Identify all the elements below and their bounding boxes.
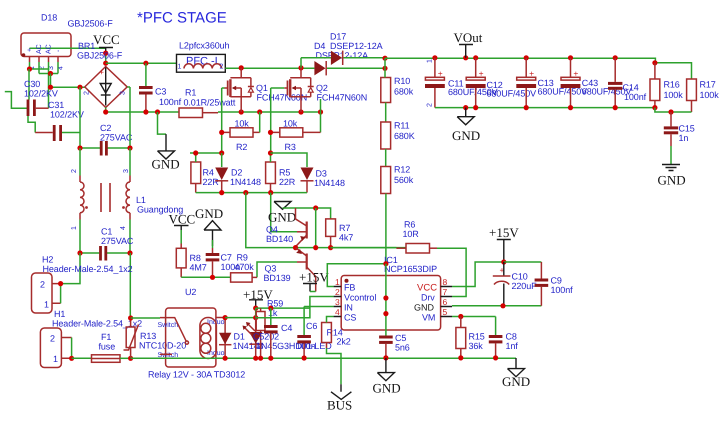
svg-text:100nf: 100nf [159, 97, 182, 107]
svg-text:2: 2 [335, 287, 340, 297]
svg-text:1n: 1n [679, 133, 689, 143]
wire R16/R17 bottom [655, 108, 692, 112]
svg-text:R2: R2 [236, 142, 247, 152]
bridge rectifier BR1 [85, 67, 127, 108]
ground GND (earth, C15) [662, 165, 680, 171]
svg-text:5n6: 5n6 [395, 343, 410, 353]
svg-text:2: 2 [40, 280, 45, 290]
svg-text:2: 2 [71, 169, 78, 173]
svg-text:100k: 100k [664, 90, 684, 100]
svg-text:2: 2 [427, 103, 434, 107]
svg-text:D3: D3 [316, 169, 327, 179]
svg-text:3: 3 [335, 297, 340, 307]
wire pin1 down [29, 62, 31, 69]
svg-text:AC: AC [46, 44, 53, 54]
svg-text:R59: R59 [267, 299, 283, 309]
svg-text:7: 7 [443, 287, 448, 297]
wire through IC to C5 [385, 264, 387, 336]
svg-text:D2: D2 [231, 168, 242, 178]
svg-text:1N45G3HD01-LED: 1N45G3HD01-LED [256, 341, 332, 351]
svg-text:GND: GND [658, 173, 686, 188]
svg-text:1k: 1k [268, 308, 278, 318]
wire FB pin1 [327, 264, 386, 287]
svg-text:1N4148: 1N4148 [314, 178, 345, 188]
svg-text:D1: D1 [234, 332, 245, 342]
svg-text:220uF: 220uF [512, 281, 538, 291]
svg-text:8: 8 [443, 277, 448, 287]
sense wire y=112 [106, 111, 179, 113]
svg-text:R13: R13 [140, 331, 156, 341]
wire R8/C7 bottom [181, 276, 230, 278]
wire +15V node to C9 [504, 261, 542, 263]
ground GND (under caps) [457, 108, 474, 125]
ground GND (C5) [377, 358, 394, 381]
svg-text:GND: GND [502, 374, 530, 389]
wire L1 to C1 [80, 220, 130, 254]
output top rail [385, 58, 655, 63]
wire GND to R7 top [283, 208, 331, 219]
bridge top wire to L2 [106, 62, 177, 64]
gate drive rail y=192.6 [196, 192, 307, 194]
svg-text:BR1: BR1 [78, 41, 95, 51]
svg-text:C8: C8 [506, 332, 517, 342]
svg-text:Q4: Q4 [266, 224, 278, 234]
svg-text:275VAC: 275VAC [101, 236, 134, 246]
svg-text:Relay 12V - 30A TD3012: Relay 12V - 30A TD3012 [148, 370, 245, 380]
svg-text:2: 2 [50, 334, 55, 344]
svg-text:1nf: 1nf [506, 341, 519, 351]
svg-text:L1: L1 [136, 195, 146, 205]
svg-text:22R: 22R [203, 177, 220, 187]
svg-text:Q1: Q1 [256, 83, 268, 93]
svg-text:C9: C9 [551, 276, 562, 286]
node dot [48, 85, 53, 90]
svg-text:1: 1 [53, 354, 58, 364]
svg-text:C6: C6 [306, 321, 317, 331]
D18 pin 1 [29, 56, 31, 62]
svg-text:GND: GND [195, 206, 223, 221]
svg-text:R17: R17 [700, 80, 716, 90]
svg-text:Drv: Drv [421, 293, 435, 303]
svg-text:D17: D17 [330, 31, 346, 41]
svg-text:GND: GND [373, 381, 401, 396]
svg-text:Q2: Q2 [316, 83, 328, 93]
svg-text:102/2KV: 102/2KV [50, 110, 84, 120]
wire through D18 to VCC [30, 47, 106, 49]
svg-text:GND: GND [268, 210, 296, 225]
svg-text:C4: C4 [281, 323, 292, 333]
svg-text:R6: R6 [404, 220, 415, 230]
wire R3 riser [320, 99, 322, 132]
svg-text:+: + [27, 48, 34, 52]
svg-text:R15: R15 [469, 332, 485, 342]
wire VCC pin8 [452, 262, 504, 287]
diode D17 [301, 58, 331, 68]
svg-text:C10: C10 [512, 272, 528, 282]
svg-text:36k: 36k [469, 341, 484, 351]
svg-text:R3: R3 [285, 142, 296, 152]
wire pin3 down [48, 62, 50, 69]
svg-text:1: 1 [335, 277, 340, 287]
wire pin1-pin3 link [30, 69, 49, 108]
svg-text:GBJ2506-F: GBJ2506-F [68, 19, 114, 29]
wire chain down to FB node [385, 194, 387, 264]
svg-text:5: 5 [443, 307, 448, 317]
svg-text:680UF/450V: 680UF/450V [487, 89, 537, 99]
svg-text:Header-Male-2.54_1x2: Header-Male-2.54_1x2 [43, 264, 133, 274]
svg-text:Switch: Switch [158, 321, 179, 329]
svg-text:6: 6 [443, 297, 448, 307]
D18 pin 4 [57, 56, 59, 62]
D18 pin 3 [48, 56, 50, 62]
supply BUS [327, 348, 342, 384]
svg-text:NCP1653DIP: NCP1653DIP [384, 264, 437, 274]
svg-text:1: 1 [71, 226, 78, 230]
svg-text:4: 4 [120, 226, 127, 230]
C31 left lead [35, 132, 53, 134]
svg-text:NTC10D-20: NTC10D-20 [139, 341, 186, 351]
C30 right lead [36, 107, 49, 109]
svg-text:R4: R4 [203, 168, 214, 178]
output bottom rail [435, 107, 655, 109]
svg-text:L2pfcx360uh: L2pfcx360uh [179, 41, 230, 51]
svg-text:680K: 680K [394, 131, 415, 141]
svg-text:CS: CS [344, 313, 356, 323]
svg-text:R16: R16 [664, 80, 680, 90]
svg-text:+15V: +15V [299, 270, 329, 285]
svg-text:100k: 100k [700, 90, 720, 100]
svg-text:GBJ2506-F: GBJ2506-F [77, 51, 123, 61]
wire pin2-pin4 link [39, 73, 58, 75]
node dot [48, 71, 53, 76]
svg-text:AC: AC [36, 44, 43, 54]
svg-text:100nf: 100nf [551, 285, 574, 295]
svg-text:U2: U2 [185, 287, 196, 297]
svg-text:680UF/450V: 680UF/450V [538, 87, 588, 97]
wire bypass vertical [315, 208, 317, 248]
driver emitter wire [246, 193, 296, 248]
svg-text:4k7: 4k7 [339, 233, 353, 243]
svg-text:GND: GND [152, 157, 180, 172]
ground GND (Q4 collector) [274, 202, 291, 210]
driver base wire [271, 193, 297, 232]
svg-text:275VAC: 275VAC [100, 133, 133, 143]
svg-text:D18: D18 [41, 13, 57, 23]
wire to transformer [80, 148, 130, 176]
svg-text:C1: C1 [101, 227, 112, 237]
Q1 gate wire [225, 87, 228, 89]
emitter rail y=247.6 [296, 247, 407, 249]
svg-text:R12: R12 [394, 165, 410, 175]
svg-text:GND: GND [414, 303, 435, 313]
svg-text:R9: R9 [237, 253, 248, 263]
svg-text:0.01R/25watt: 0.01R/25watt [184, 97, 236, 107]
ground GND (below C3 wire) [158, 112, 167, 134]
svg-text:1: 1 [44, 300, 49, 310]
svg-text:H1: H1 [54, 309, 65, 319]
resistor R9 [231, 273, 253, 282]
svg-text:IN: IN [344, 303, 353, 313]
wire C30 left plate to C31 [28, 116, 35, 133]
wire pin4 down [57, 62, 59, 74]
svg-text:FCH47N60N: FCH47N60N [317, 93, 368, 103]
svg-text:R10: R10 [394, 76, 410, 86]
svg-text:1N4148: 1N4148 [230, 177, 261, 187]
svg-text:Q3: Q3 [265, 264, 277, 274]
svg-text:+: + [99, 67, 104, 77]
wire GND pin6 [452, 305, 541, 307]
node dot [27, 66, 32, 71]
wire D17 node vertical [384, 58, 386, 68]
svg-text:C2: C2 [100, 123, 111, 133]
wire C1 left down to H2 [61, 253, 80, 284]
Q2 gate wire [284, 87, 287, 89]
svg-text:2: 2 [84, 91, 91, 95]
D18 pin 2 [38, 56, 40, 62]
wire Vcontrol pin2 [256, 297, 334, 318]
Q3 base wire from R9 [257, 262, 297, 277]
svg-text:VOut: VOut [454, 30, 483, 45]
ground GND (bottom right) [508, 358, 525, 377]
svg-text:100nf: 100nf [624, 92, 647, 102]
svg-text:BD139: BD139 [264, 273, 291, 283]
wire R6 to Drv pin7 [437, 248, 466, 296]
svg-text:470k: 470k [235, 262, 255, 272]
wire IN pin3 [304, 306, 334, 308]
svg-text:GND: GND [452, 128, 480, 143]
svg-text:DSEP12-12A: DSEP12-12A [330, 41, 383, 51]
svg-text:22R: 22R [279, 177, 296, 187]
svg-text:3: 3 [120, 91, 127, 95]
svg-text:R5: R5 [279, 168, 290, 178]
wire +15V node [256, 308, 310, 318]
svg-text:Guangdong: Guangdong [137, 205, 183, 215]
svg-text:C7: C7 [221, 253, 232, 263]
svg-text:C30: C30 [24, 79, 40, 89]
wire R13 node to relay switch [131, 317, 160, 319]
svg-text:Vcontrol: Vcontrol [344, 293, 376, 303]
svg-text:H2: H2 [42, 255, 53, 265]
bridge bottom stub [105, 108, 107, 113]
svg-text:F1: F1 [101, 332, 111, 342]
svg-text:10R: 10R [403, 229, 420, 239]
svg-text:1: 1 [178, 64, 182, 71]
svg-text:C31: C31 [48, 100, 64, 110]
svg-text:C15: C15 [679, 124, 695, 134]
wire relay node to LED node [225, 317, 256, 319]
svg-text:R1: R1 [185, 87, 196, 97]
svg-text:BUS: BUS [327, 398, 352, 413]
svg-text:VM: VM [422, 313, 435, 323]
svg-text:DSEP12-12A: DSEP12-12A [316, 50, 369, 60]
svg-text:680k: 680k [394, 87, 414, 97]
AC input hook left [5, 92, 28, 109]
svg-text:4M7: 4M7 [190, 263, 207, 273]
svg-text:2k2: 2k2 [337, 337, 351, 347]
LED Q5 [255, 318, 257, 359]
wire to bridge left [51, 74, 85, 88]
svg-text:C5: C5 [395, 333, 406, 343]
wire pin1 to C30 [28, 69, 30, 100]
svg-text:1: 1 [427, 59, 434, 63]
C31 right lead wire [62, 132, 80, 134]
svg-text:fuse: fuse [99, 342, 116, 352]
svg-text:10k: 10k [283, 118, 298, 128]
svg-text:FB: FB [344, 283, 355, 293]
svg-text:560k: 560k [394, 175, 414, 185]
wire C1 right down to R13 [129, 253, 131, 318]
svg-text:C3: C3 [155, 87, 166, 97]
svg-text:+15V: +15V [489, 225, 519, 240]
svg-text:*PFC STAGE: *PFC STAGE [137, 9, 227, 26]
svg-text:R8: R8 [190, 253, 201, 263]
svg-text:3: 3 [123, 169, 130, 173]
svg-text:R7: R7 [339, 223, 350, 233]
svg-text:C14: C14 [623, 83, 639, 93]
wire VM pin5 [452, 316, 496, 318]
wire L2 out to Q1/Q2/D4 [225, 67, 314, 69]
svg-text:VCC: VCC [93, 32, 120, 47]
wire pin2 down [38, 62, 40, 74]
svg-text:BD140: BD140 [266, 234, 293, 244]
svg-text:2: 2 [220, 64, 224, 71]
svg-text:R11: R11 [394, 121, 410, 131]
svg-text:D4: D4 [314, 41, 325, 51]
svg-text:4: 4 [335, 307, 340, 317]
IC pin stubs [334, 287, 342, 317]
svg-text:102/2KV: 102/2KV [24, 89, 58, 99]
node dot [77, 85, 82, 90]
bottom ground rail [131, 357, 516, 359]
svg-text:10k: 10k [235, 118, 250, 128]
